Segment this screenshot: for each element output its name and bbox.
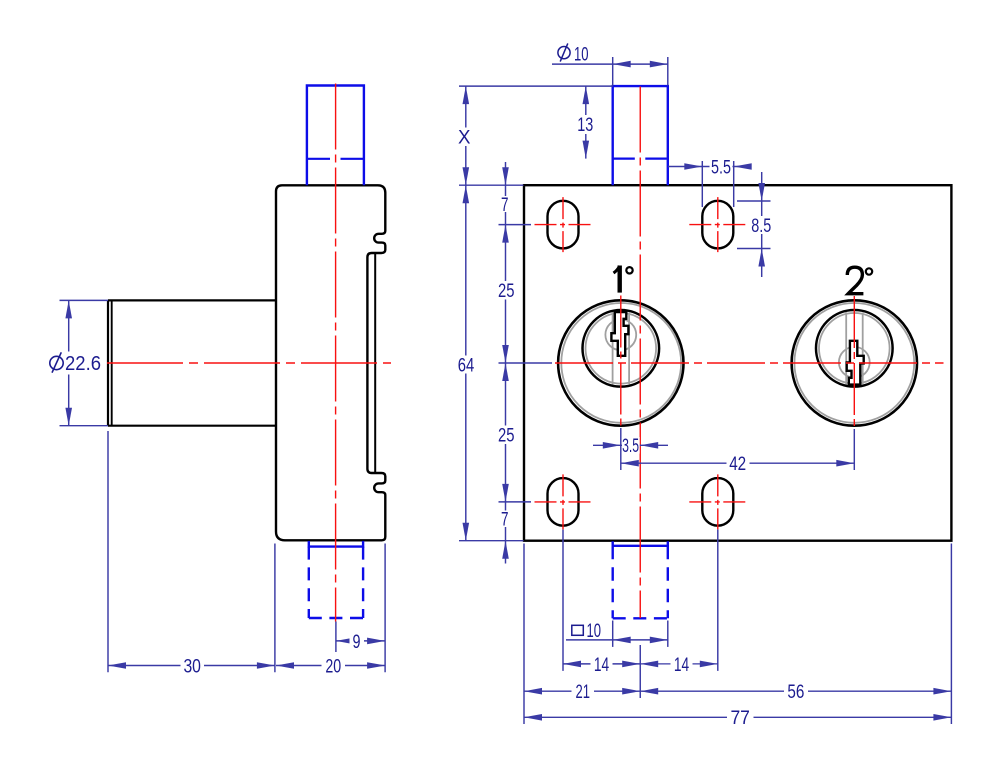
lock cylinder 2: keyway side lines (gray) <box>846 312 863 384</box>
svg-text:21: 21 <box>575 682 590 703</box>
left view: cylinder barrel Ø22.6 <box>108 300 276 425</box>
dimension 14 left <box>563 655 640 676</box>
dimension 77 <box>524 708 951 729</box>
centerline: left view vertical stem axis <box>335 84 337 622</box>
left view: bottom stem visible cap <box>309 541 363 547</box>
dimension Ø22.6 <box>47 300 105 425</box>
svg-text:14: 14 <box>674 655 690 676</box>
left view: bottom stem hidden outline <box>309 547 363 618</box>
centerline: lock 1 vertical axis <box>620 296 622 429</box>
extension lines: Ø10 above stem <box>613 57 668 86</box>
front view: bottom-right mounting slot 5.5x8.5 <box>702 478 733 526</box>
extension lines: 30/20 dims <box>108 431 385 672</box>
left view: faceplate groove line <box>374 253 376 473</box>
dimension X <box>456 86 474 185</box>
extension line: stem axis below (for 9) <box>335 622 337 653</box>
dimension Ø10 <box>552 43 668 67</box>
dimension 14 right <box>640 655 718 676</box>
svg-text:77: 77 <box>730 708 750 729</box>
svg-text:25: 25 <box>498 426 515 447</box>
lock cylinder 2: keyway bow circle (gray) <box>839 347 870 378</box>
dimension 3.5 <box>593 436 668 457</box>
centerline cross: top-left slot <box>535 197 592 252</box>
dimension 56 <box>640 682 951 703</box>
dimension 13 <box>575 86 597 159</box>
left view: lock body outline with notches <box>276 185 385 540</box>
lock cylinder 2: plug chamfer circle (gray) <box>819 313 890 384</box>
front view: top stem Ø10 <box>613 86 668 185</box>
svg-text:X: X <box>458 128 471 149</box>
dimension 21 <box>524 682 640 703</box>
extension line: stem top level (X) <box>459 85 613 87</box>
svg-text:20: 20 <box>325 656 341 677</box>
svg-text:10: 10 <box>587 621 602 642</box>
svg-text:56: 56 <box>787 682 804 703</box>
dimension 64 <box>455 185 478 541</box>
dimension 8.5 <box>751 172 773 277</box>
left view: top stem (square shaft) <box>307 86 364 186</box>
svg-text:13: 13 <box>577 115 593 136</box>
svg-text:25: 25 <box>498 281 515 302</box>
svg-text:64: 64 <box>458 355 475 376</box>
centerline: front view vertical stem axis <box>639 87 641 619</box>
label 1º (first key turn) <box>614 266 633 293</box>
svg-text:9: 9 <box>353 632 361 653</box>
label 2º (second key turn) <box>847 267 872 294</box>
dimension 30 <box>108 656 275 677</box>
left view: stem hidden line (13 depth) <box>308 158 364 160</box>
lock cylinder 2: outer face circle <box>792 300 917 425</box>
lock cylinder 1: plug circle <box>583 310 660 387</box>
lock cylinder 1: keyway bow circle (gray) <box>605 319 636 350</box>
dimension 5.5 <box>668 157 752 178</box>
front view: bottom stem hidden outline (square 10) <box>613 546 668 619</box>
extension lines: plate top/bottom left (X/64) <box>459 185 524 541</box>
svg-text:42: 42 <box>729 454 746 475</box>
extension lines: Ø22.6 <box>60 300 109 425</box>
front view: top stem hidden line <box>613 158 667 160</box>
svg-text:30: 30 <box>183 656 201 677</box>
front view: bottom-left mounting slot 5.5x8.5 <box>548 478 579 526</box>
svg-text:14: 14 <box>594 655 610 676</box>
extension lines: plate edges below (21/56/77) <box>524 544 951 725</box>
lock cylinder 2: key profile (rotated 180°) <box>847 341 864 385</box>
extension line: stem axis bottom (14/21/56) <box>639 645 641 698</box>
centerline: left view horizontal cylinder axis <box>107 362 391 364</box>
lock cylinder 2: plug circle <box>816 310 893 387</box>
extension lines: square10 below stem <box>613 621 668 647</box>
svg-text:5.5: 5.5 <box>711 157 731 178</box>
centerline: front view horizontal plate axis <box>555 362 944 364</box>
extension lines: lock centers below (3.5/42) <box>621 428 855 470</box>
centerline cross: bottom-right slot <box>689 474 746 529</box>
svg-text:3.5: 3.5 <box>622 436 639 457</box>
extension lines: slot columns below (14) <box>563 530 718 671</box>
lock cylinder 1: key profile <box>611 312 628 356</box>
svg-text:7: 7 <box>501 195 509 216</box>
dimension 42 <box>621 454 855 475</box>
svg-text:10: 10 <box>574 45 589 66</box>
lock cylinder 1: outer face circle <box>558 300 683 425</box>
svg-text:7: 7 <box>501 510 509 531</box>
extension lines: 8.5 slot top/bottom <box>737 201 771 249</box>
svg-text:8.5: 8.5 <box>751 216 771 237</box>
dimension 20 <box>276 656 385 677</box>
centerline cross: bottom-left slot <box>535 474 592 529</box>
front view: lock plate 77x64 <box>524 185 951 541</box>
centerline cross: top-right slot <box>689 197 746 252</box>
extension lines: 5.5 slot edges <box>702 161 733 207</box>
dimension 9 <box>336 632 385 653</box>
front view: bottom stem visible cap <box>613 541 668 546</box>
lock cylinder 2: chamfer circle (gray) <box>794 303 914 423</box>
extension lines: slot rows and middle (7/25) <box>499 225 553 502</box>
lock cylinder 1: plug chamfer circle (gray) <box>586 313 657 384</box>
dimension chain 7/25/25/7 <box>495 162 519 564</box>
lock cylinder 1: chamfer circle (gray) <box>561 303 681 423</box>
centerline: lock 2 vertical axis <box>853 296 855 430</box>
front view: top-right mounting slot 5.5x8.5 <box>702 201 733 249</box>
front view: top-left mounting slot 5.5x8.5 <box>548 201 579 249</box>
dimension square-10 <box>566 621 668 643</box>
svg-text:22.6: 22.6 <box>65 353 101 375</box>
lock cylinder 1: keyway side lines (gray) <box>613 312 630 384</box>
